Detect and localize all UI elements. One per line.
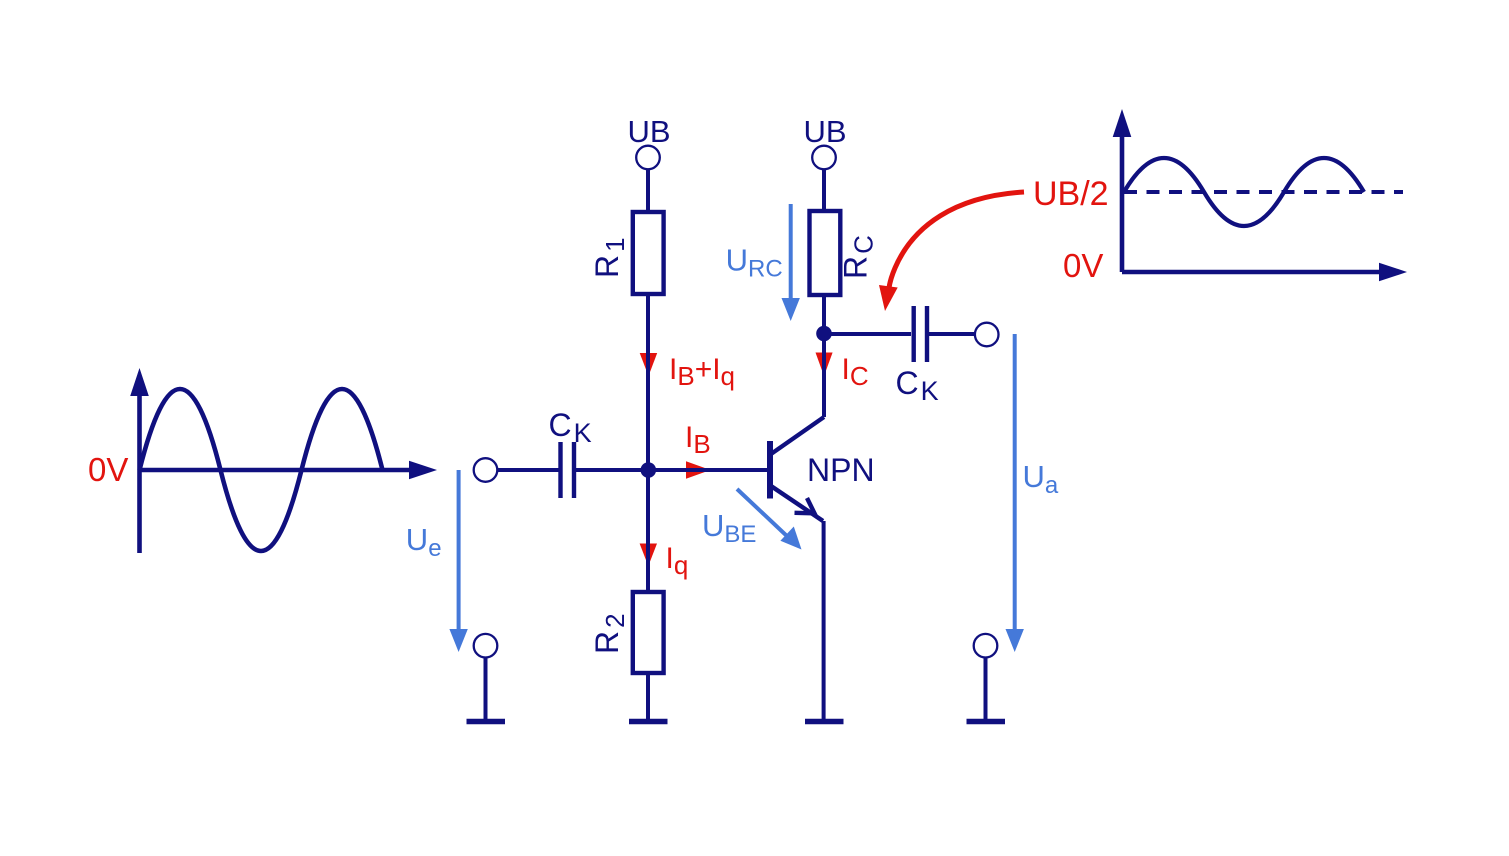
wire input terminal to CK [497, 468, 560, 472]
ground terminal circle (output side) [974, 634, 998, 658]
output graph horizontal axis [1122, 270, 1382, 275]
coupling capacitor CK (input) right plate [572, 442, 576, 498]
output sine wave Ua [1124, 158, 1364, 226]
transistor Q1 emitter lead [771, 486, 823, 521]
node base junction dot [641, 462, 657, 478]
input signal graph horizontal axis [140, 468, 413, 473]
voltage arrow Ua [1013, 334, 1017, 630]
svg-text:UB: UB [628, 114, 671, 149]
coupling capacitor CK (output) right plate [925, 306, 929, 362]
resistor R2 [633, 592, 664, 673]
output terminal circle [975, 323, 999, 347]
wire UB terminal to RC [822, 169, 826, 211]
svg-text:UB: UB [804, 114, 847, 149]
current arrow IB+Iq [640, 353, 658, 376]
output graph dashed UB/2 level line [1124, 190, 1403, 194]
resistor R1 [633, 212, 664, 294]
input graph vertical axis arrowhead [130, 368, 149, 396]
ground terminal circle (input side) [474, 634, 498, 658]
input signal graph vertical axis [137, 392, 142, 553]
svg-text:UB/2: UB/2 [1033, 175, 1109, 213]
terminal UB (right supply) [812, 146, 836, 170]
svg-text:0V: 0V [88, 451, 128, 488]
ground (R2) [629, 719, 668, 725]
output graph horizontal axis arrowhead [1379, 263, 1407, 282]
wire emitter to ground [822, 521, 826, 721]
ground (emitter) [805, 719, 844, 725]
svg-text:0V: 0V [1063, 247, 1103, 284]
transistor Q1 base bar [767, 441, 773, 499]
output graph vertical axis arrowhead [1113, 109, 1132, 137]
output graph vertical axis [1120, 131, 1125, 272]
voltage arrow Ue [457, 470, 461, 630]
resistor RC [810, 211, 841, 295]
voltage arrow URC [789, 204, 793, 300]
svg-text:NPN: NPN [807, 452, 875, 488]
wire input ground terminal to ground [484, 658, 488, 722]
voltage arrow UBE [737, 489, 789, 538]
current arrow Iq [640, 544, 657, 567]
input graph horizontal axis arrowhead [409, 461, 437, 480]
ground (input side) [467, 719, 506, 725]
ground (output side) [967, 719, 1006, 725]
current arrow IB [686, 461, 711, 479]
terminal UB (left supply) [636, 146, 660, 170]
transistor Q1 collector lead [771, 417, 824, 454]
wire output CK to output terminal [929, 332, 975, 336]
wire output ground terminal to ground [984, 658, 988, 722]
wire base node to R2 [646, 470, 650, 592]
wire R1 to base node [646, 294, 650, 470]
red annotation arrow from UB/2 to collector node [889, 192, 1024, 288]
input sine wave Ue [140, 389, 383, 551]
wire RC to collector node [822, 295, 826, 417]
wire collector node to output CK [824, 332, 911, 336]
wire CK to base node to transistor base [576, 468, 768, 472]
wire R2 to ground [646, 673, 650, 721]
wire UB terminal to R1 [646, 169, 650, 212]
input terminal circle [474, 458, 498, 482]
current arrow IC [816, 353, 833, 377]
coupling capacitor CK (input) left plate [558, 442, 562, 498]
coupling capacitor CK (output) left plate [912, 306, 916, 362]
node collector junction dot [816, 326, 832, 342]
transistor Q1 emitter arrowhead [795, 498, 815, 513]
